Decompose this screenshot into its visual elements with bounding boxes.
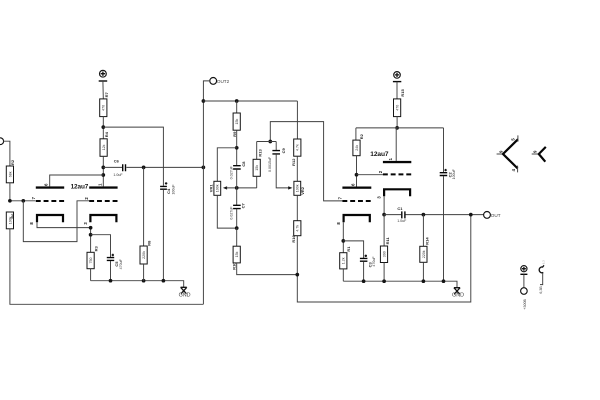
svg-text:GND: GND — [452, 292, 464, 298]
svg-text:VR2: VR2 — [300, 186, 305, 195]
legend +300V terminal — [521, 266, 527, 272]
svg-text:12au7: 12au7 — [71, 183, 89, 190]
capacitor C4 — [160, 186, 167, 189]
svg-text:15k: 15k — [235, 119, 239, 125]
tube U1 right anode pin 1 — [89, 186, 117, 188]
svg-text:GND: GND — [179, 293, 191, 299]
svg-text:1.0uF: 1.0uF — [397, 219, 407, 223]
tube U2 left grid pin 7 — [342, 200, 371, 202]
junction VR1 top — [235, 146, 239, 150]
resistor R11 — [383, 215, 385, 246]
junction B+2 node — [395, 126, 399, 130]
junction C3 branch — [341, 239, 345, 243]
wire cathode 3b to OUT — [383, 196, 385, 214]
legend 6.3V connector — [539, 267, 543, 273]
tube U2 right anode pin 1 — [383, 161, 411, 163]
svg-text:R7: R7 — [104, 92, 109, 98]
resistor R2 — [6, 166, 13, 183]
input terminal IN — [0, 138, 4, 145]
junction treble node — [268, 140, 272, 144]
ground rail right — [343, 281, 457, 288]
resistor R14 — [422, 215, 424, 247]
svg-text:100k: 100k — [216, 184, 220, 192]
svg-text:R2: R2 — [359, 133, 364, 139]
resistor R8 — [143, 167, 145, 246]
svg-text:4.7k: 4.7k — [296, 144, 300, 151]
junction R8 tap — [142, 166, 146, 170]
tube U2 right grid pin 2 — [383, 173, 411, 175]
wire anode 1b — [395, 128, 397, 161]
junction cathodes — [89, 226, 93, 230]
capacitor C7 — [236, 188, 238, 205]
wire cathode 8 to cathode 3 — [37, 222, 91, 227]
resistor R16 — [296, 195, 298, 220]
svg-text:4.7k: 4.7k — [296, 225, 300, 232]
junction R14 rail — [422, 279, 426, 283]
capacitor C8 — [233, 166, 241, 169]
capacitor C2 — [443, 128, 445, 172]
svg-text:R6: R6 — [10, 213, 15, 219]
junction R8 rail — [142, 279, 146, 283]
svg-text:R11: R11 — [385, 237, 390, 245]
wire R15 to node — [396, 117, 398, 128]
resistor R3 — [87, 252, 94, 268]
junction R10 top — [235, 226, 239, 230]
resistor R15 — [394, 99, 401, 117]
wire VR1 top jog — [217, 148, 236, 182]
svg-text:470: 470 — [396, 105, 400, 111]
wire grid node to grid pin 7 — [10, 200, 36, 202]
svg-text:390: 390 — [382, 251, 386, 257]
resistor R9 — [236, 101, 238, 113]
wire to C3 — [343, 241, 363, 258]
svg-text:C7: C7 — [241, 203, 246, 209]
terminal OUT2 — [210, 78, 217, 85]
wire treble node to grid — [270, 122, 342, 201]
svg-text:220k: 220k — [142, 251, 146, 259]
svg-text:R3: R3 — [93, 246, 98, 252]
capacitor C5 — [107, 258, 114, 261]
potentiometer VR1 — [214, 181, 221, 195]
svg-text:VR1: VR1 — [209, 184, 214, 193]
wire B+ to R15 — [396, 82, 398, 99]
wire R10 to feedback chain — [237, 263, 298, 275]
svg-text:100uF: 100uF — [452, 168, 456, 179]
capacitor C3 — [360, 258, 368, 261]
wire R3 to rail — [90, 269, 92, 281]
svg-text:R9: R9 — [232, 131, 237, 137]
potentiometer VR2 — [294, 181, 301, 195]
svg-text:1.0uF: 1.0uF — [113, 173, 123, 177]
junction C8 bottom — [235, 186, 239, 190]
legend +300V connector — [521, 288, 528, 295]
tube U1 right cathode pin 3 — [90, 215, 116, 222]
svg-text:6,3B: 6,3B — [539, 286, 543, 294]
tube U2 left cathode pin 8 — [344, 215, 370, 222]
wire left anode jog — [50, 175, 104, 186]
wire VR1 wiper line — [227, 187, 257, 189]
junction C4 rail — [162, 279, 166, 283]
svg-text:470uF: 470uF — [372, 256, 376, 267]
VR2 wiper arrow — [288, 186, 292, 189]
ground rail left — [91, 281, 184, 288]
junction follower out — [382, 213, 386, 217]
resistor R7 — [100, 99, 107, 117]
svg-text:OUT: OUT — [491, 213, 501, 218]
tube U2 right cathode pin 3 — [384, 189, 410, 196]
junction C5 branch — [89, 233, 93, 237]
svg-text:0.027uF: 0.027uF — [229, 165, 233, 179]
svg-text:470uF: 470uF — [119, 258, 123, 269]
svg-text:0.027uF: 0.027uF — [229, 206, 233, 220]
ground symbol left — [181, 287, 187, 293]
svg-text:15k: 15k — [235, 251, 239, 257]
junction plate node / left anode — [101, 173, 105, 177]
svg-text:68k: 68k — [8, 171, 12, 177]
svg-text:R10: R10 — [231, 262, 236, 270]
svg-text:+300B: +300B — [523, 299, 527, 310]
capacitor C1 — [384, 214, 401, 216]
ground symbol right — [454, 288, 460, 294]
junction at R2/R6 — [8, 199, 12, 203]
resistor R2 (stage 2) — [353, 140, 360, 156]
junction feedback tap — [469, 213, 473, 217]
wire treble node bar — [257, 141, 277, 143]
junction R11 rail — [382, 279, 386, 283]
junction OUT2 line — [202, 166, 206, 170]
junction C5 rail — [109, 279, 113, 283]
resistor R13 — [256, 142, 258, 160]
tube U1 left grid pin 7 — [36, 200, 64, 202]
svg-text:1.2k: 1.2k — [342, 257, 346, 264]
terminal OUT — [484, 212, 491, 219]
junction R10 join — [295, 273, 299, 277]
capacitor C6 — [103, 166, 122, 168]
svg-text:100uF: 100uF — [172, 184, 176, 195]
junction C3 rail — [362, 279, 366, 283]
svg-text:C8: C8 — [241, 161, 246, 167]
svg-text:R16: R16 — [291, 234, 296, 242]
wire B+ to R7 — [102, 81, 104, 99]
tube U1 left cathode pin 8 — [37, 215, 63, 222]
svg-text:750: 750 — [89, 258, 93, 264]
tube U2 left anode pin 6 — [342, 187, 371, 189]
resistor R1 — [340, 253, 347, 269]
junction B+ node — [101, 125, 105, 129]
wire C3 to rail — [363, 262, 365, 281]
resistor R4 — [100, 139, 107, 157]
heater filament pin 9 — [532, 153, 539, 155]
wire VR1 bottom — [217, 195, 236, 228]
svg-text:12k: 12k — [102, 144, 106, 150]
wire C6 to OUT2 line — [126, 166, 203, 168]
wire to R2b — [355, 128, 357, 140]
svg-text:C1: C1 — [397, 206, 403, 211]
wire B+2 node rail — [356, 127, 444, 129]
wire C4 to ground rail — [162, 190, 164, 281]
svg-text:OUT2: OUT2 — [217, 79, 230, 84]
wire to grid 2b — [357, 174, 383, 176]
svg-text:R14: R14 — [424, 237, 429, 245]
junction grid branch — [21, 199, 25, 203]
wire C9 to VR2 wiper — [276, 154, 289, 188]
tube U1 right grid pin 2 — [89, 200, 118, 202]
wire R4 to plates — [102, 156, 104, 186]
svg-text:R1: R1 — [346, 246, 351, 252]
svg-text:470: 470 — [102, 105, 106, 111]
wire tone top rail — [203, 100, 297, 102]
wire input to R2 — [3, 141, 9, 166]
wire R16 to feedback bus — [297, 215, 471, 302]
power terminal B+ left — [100, 70, 107, 77]
wire C1 to OUT — [406, 214, 484, 216]
wire R6 to feedback bus — [10, 229, 204, 304]
resistor R12 — [296, 101, 298, 139]
svg-text:0.0015uF: 0.0015uF — [268, 156, 272, 172]
svg-text:R15: R15 — [400, 88, 405, 96]
junction R9 top — [235, 99, 239, 103]
wire B+ branch to C4 — [103, 127, 163, 186]
svg-text:C6: C6 — [114, 159, 120, 164]
svg-text:R8: R8 — [146, 240, 151, 246]
svg-text:R2: R2 — [10, 159, 15, 165]
heater filament pins 5-9 — [497, 153, 503, 155]
wire C8 to wiper — [236, 169, 238, 188]
tube U1 left anode pin 6 — [36, 186, 64, 188]
junction tone feed — [202, 99, 206, 103]
resistor R6 — [6, 212, 13, 229]
svg-text:R12: R12 — [291, 158, 296, 166]
svg-text:6,3: 6,3 — [542, 260, 546, 264]
wire OUT2 vertical bus — [203, 81, 210, 304]
wire C5 to rail — [110, 261, 112, 281]
wire R9 to C8 — [236, 130, 238, 165]
junction plate node / C6 tap — [101, 166, 105, 170]
VR1 wiper arrow — [223, 186, 227, 189]
power terminal B+ right — [394, 72, 401, 79]
capacitor C9 — [275, 142, 277, 151]
wire R1 to rail — [342, 269, 344, 281]
svg-text:C9: C9 — [281, 148, 286, 154]
wire R2b to grid/anode — [356, 156, 358, 187]
svg-text:15k: 15k — [255, 165, 259, 171]
wire cathode node down — [90, 228, 92, 253]
svg-text:24k: 24k — [355, 145, 359, 151]
wire R2 to grid node — [9, 183, 11, 201]
svg-text:R13: R13 — [258, 148, 263, 156]
wire grid2 tie — [23, 201, 89, 242]
junction R14 top — [422, 213, 426, 217]
wire to C5 — [91, 235, 111, 257]
svg-text:C4: C4 — [166, 188, 171, 194]
junction C2 rail — [442, 279, 446, 283]
svg-text:R4: R4 — [104, 131, 109, 137]
svg-text:12au7: 12au7 — [370, 151, 389, 158]
wire cathode 8b down — [342, 222, 344, 253]
junction direct coupling — [355, 173, 359, 177]
resistor R10 — [236, 228, 238, 246]
svg-text:220k: 220k — [422, 250, 426, 258]
wire R7 to R4 — [102, 117, 104, 139]
